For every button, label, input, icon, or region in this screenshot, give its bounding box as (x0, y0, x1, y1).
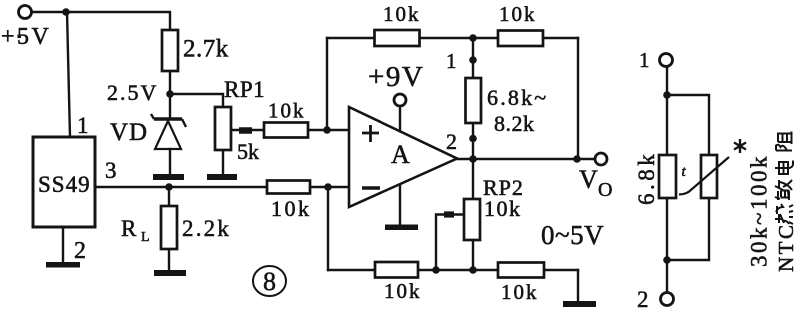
resistor 10k feedback left body (375, 30, 420, 46)
wire plus node feedback riser (326, 38, 328, 130)
svg-text:10k: 10k (501, 280, 539, 304)
svg-text:L: L (141, 230, 150, 245)
wire right ground stem (577, 270, 579, 301)
IC SS49 box (33, 137, 95, 227)
svg-text:O: O (598, 179, 612, 201)
op-amp U A triangle (349, 107, 457, 207)
svg-text:10k: 10k (484, 196, 522, 221)
junction dot minus input node (324, 183, 332, 191)
svg-text:R: R (121, 216, 137, 241)
svg-text:6.8k: 6.8k (634, 151, 659, 205)
wire node column 1-2 (472, 38, 474, 270)
wire op-amp ground stem (399, 184, 401, 224)
glyph min (quick) (775, 180, 792, 200)
svg-text:2: 2 (446, 129, 457, 154)
junction dot RP2 wiper rail (432, 266, 440, 274)
svg-text:2.2k: 2.2k (182, 216, 231, 241)
svg-text:0~5V: 0~5V (541, 220, 604, 250)
resistor 6.8k-8.2k body (466, 78, 482, 123)
svg-text:A: A (391, 140, 410, 169)
wire SS49 pin1 drop (67, 12, 70, 137)
svg-text:SS49: SS49 (38, 172, 91, 197)
svg-text:RP1: RP1 (224, 77, 265, 102)
resistor 10k input minus body (267, 181, 310, 194)
wire right circuit top branch (667, 95, 709, 155)
svg-text:10k: 10k (383, 2, 421, 26)
svg-text:2.7k: 2.7k (183, 36, 229, 63)
resistor 6.8k right body (659, 155, 676, 198)
wire 2.7k bottom to 2.5V node (169, 71, 171, 94)
resistor 10k feedback right body (498, 31, 543, 47)
wire output line (456, 158, 595, 160)
ground SS49 pin2 (46, 262, 80, 268)
wire 2.5V node to RP1 top (170, 94, 223, 107)
wire 10k to plus input (308, 129, 349, 131)
wire top rail (327, 37, 578, 39)
svg-text:8.2k: 8.2k (494, 111, 535, 136)
glyph re (hot) (775, 204, 793, 224)
junction dot terminal 2 (469, 135, 477, 143)
svg-text:+9V: +9V (368, 61, 424, 93)
wire +5V rail top (32, 12, 170, 30)
terminal +9V circle (394, 94, 406, 106)
svg-text:VD: VD (110, 119, 148, 146)
junction dot plus input node (323, 126, 331, 134)
junction dot right circuit bottom (663, 256, 671, 264)
op-amp plus sign (362, 125, 379, 142)
glyph zu (resist) (776, 132, 792, 151)
junction dot output crossing (469, 155, 477, 163)
svg-text:+5V: +5V (1, 24, 51, 50)
potentiometer RP2 wiper arrow (444, 211, 454, 217)
svg-text:10k: 10k (271, 196, 312, 221)
glyph dian (electric) (775, 161, 793, 175)
svg-text:t: t (682, 164, 687, 180)
junction dot output right (573, 155, 581, 163)
terminal 1 circle right (660, 54, 673, 67)
svg-text:6.8k~: 6.8k~ (487, 85, 548, 110)
svg-text:5k: 5k (237, 139, 259, 164)
junction dot RP2 bottom rail (469, 266, 477, 274)
wire minus node to bottom rail (327, 187, 329, 270)
ground bottom right (563, 301, 596, 307)
junction dot terminal 1 (469, 56, 477, 64)
wire minus input line (328, 186, 349, 188)
wire right circuit left column (666, 67, 668, 292)
op-amp minus sign (362, 186, 380, 189)
potentiometer RP1 body (215, 107, 231, 150)
wire RL bottom (168, 249, 170, 270)
scan speck (18, 35, 22, 39)
resistor 10k bottom right body (498, 263, 544, 278)
terminal +5V circle (19, 6, 32, 19)
svg-text:30k~100k: 30k~100k (747, 154, 772, 267)
terminal VO circle (595, 153, 607, 165)
wire main SS49 pin3 line (95, 186, 328, 188)
svg-text:2.5V: 2.5V (107, 80, 158, 105)
wire RP1 wiper to 10k (231, 129, 264, 131)
svg-text:V: V (579, 165, 598, 194)
svg-text:1: 1 (446, 49, 457, 73)
label NTC thermistor rotated (774, 132, 798, 273)
ground VD (153, 174, 184, 180)
svg-text:1: 1 (639, 48, 650, 72)
resistor 2.7k body (162, 30, 178, 71)
figure number 8 (253, 266, 286, 296)
wire right feedback drop (577, 38, 579, 159)
thermistor diagonal stroke (679, 157, 729, 195)
wire SS49 pin2 stem (62, 227, 64, 262)
wire op-amp power stem (399, 106, 401, 130)
junction dot 2.5V node (166, 90, 174, 98)
svg-text:NTC: NTC (774, 223, 798, 273)
svg-text:10k: 10k (384, 279, 422, 303)
svg-text:10k: 10k (268, 99, 306, 123)
wire bottom rail (328, 269, 578, 271)
thermistor asterisk (734, 139, 746, 153)
svg-text:3: 3 (105, 158, 117, 183)
ground RP1 (207, 174, 237, 180)
wire RL top (168, 187, 170, 206)
diode VD zener (151, 114, 186, 149)
ground RL (154, 270, 186, 276)
resistor 10k input plus body (264, 123, 308, 138)
wire RP1 bottom stem (222, 150, 224, 173)
wire VD cathode stem (169, 94, 171, 117)
wire right circuit bottom branch (667, 198, 709, 260)
junction dot right circuit top (663, 91, 671, 99)
junction dot top rail (469, 34, 477, 42)
potentiometer RP1 wiper arrow (239, 127, 252, 134)
potentiometer RP2 body (464, 199, 480, 240)
resistor RL 2.2k body (161, 206, 177, 249)
junction dot +5V (62, 8, 70, 16)
terminal 2 circle right (661, 293, 674, 306)
wire RP2 wiper (436, 215, 464, 271)
thermistor body (701, 155, 717, 198)
svg-text:2: 2 (637, 287, 649, 312)
svg-text:8: 8 (263, 267, 276, 296)
resistor 10k bottom left body (375, 262, 418, 278)
wire VD anode stem (169, 149, 171, 173)
ground op-amp (385, 225, 418, 231)
svg-text:2: 2 (74, 238, 86, 264)
junction dot main line RL (165, 183, 173, 191)
svg-text:1: 1 (77, 113, 89, 138)
svg-text:10k: 10k (499, 2, 537, 26)
